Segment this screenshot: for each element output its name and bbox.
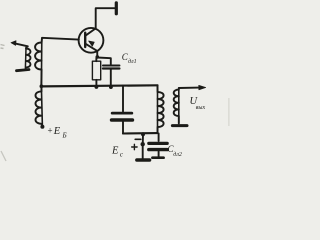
svg-text:E: E [53, 126, 61, 137]
svg-text:вых: вых [196, 105, 206, 111]
svg-text:Б: Б [62, 132, 67, 140]
svg-text:+: + [48, 126, 53, 136]
svg-text:E: E [111, 146, 119, 157]
svg-text:дл1: дл1 [128, 58, 137, 65]
svg-text:дл2: дл2 [173, 151, 182, 158]
